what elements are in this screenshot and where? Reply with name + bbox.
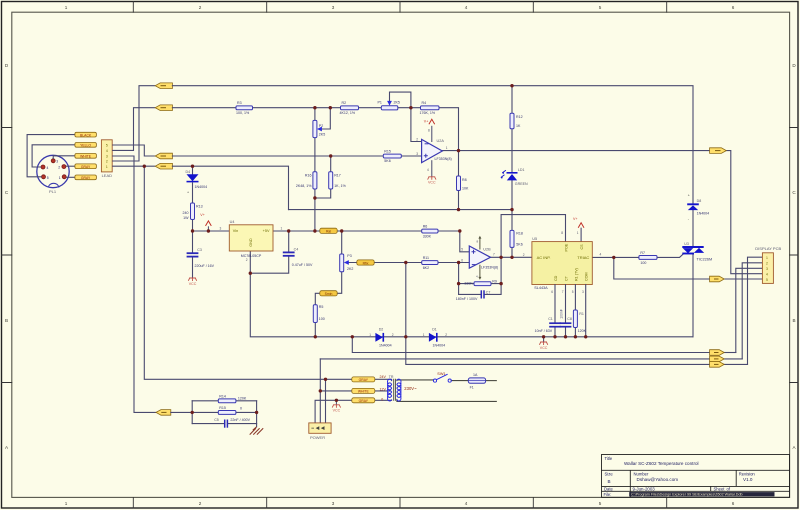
PL1 pin 2 [62, 165, 66, 169]
svg-text:Title: Title [605, 456, 613, 461]
svg-text:R14: R14 [219, 395, 226, 399]
svg-text:SW1: SW1 [437, 372, 445, 376]
net label box WHITE [75, 154, 97, 159]
net label box Smin [320, 291, 337, 296]
junction LEAD pin1 / 24V drop [143, 165, 146, 168]
svg-text:9-Jun-2003: 9-Jun-2003 [633, 487, 656, 492]
svg-text:D8: D8 [697, 199, 702, 203]
svg-text:C:\Program Files\Design Explor: C:\Program Files\Design Explorer 99 SE\E… [631, 493, 743, 497]
wire C3 bottom lead to VCC [192, 258, 194, 278]
svg-text:V1.0: V1.0 [743, 477, 753, 482]
svg-text:Wallar SC-Z602 Temperature con: Wallar SC-Z602 Temperature control [624, 461, 699, 466]
svg-text:2K5: 2K5 [319, 133, 325, 137]
svg-text:R11: R11 [423, 256, 429, 260]
net arrow bus C [710, 362, 725, 368]
svg-text:100: 100 [319, 317, 325, 321]
svg-text:4: 4 [465, 501, 468, 506]
resistor R8 [457, 176, 461, 191]
wire LEAD pin3 down to R14 block [112, 156, 156, 412]
potentiometer P3 [340, 254, 344, 272]
svg-text:C4: C4 [294, 247, 299, 251]
junction R13 / C3 / V+ node [191, 229, 194, 232]
wire gate node down to arrow [614, 257, 710, 279]
wire U5 R1TV pin chain [574, 285, 576, 337]
wire 24V label to transformer [375, 379, 392, 380]
svg-text:3: 3 [766, 267, 768, 271]
PL1 pin 5 [42, 175, 46, 179]
svg-text:6: 6 [732, 501, 735, 506]
svg-text:PL1: PL1 [49, 189, 57, 194]
svg-text:3: 3 [220, 226, 222, 230]
resistor R18 [510, 230, 514, 247]
wire R14 row [192, 400, 256, 402]
svg-text:TIC226M: TIC226M [697, 257, 713, 261]
svg-text:1: 1 [577, 231, 579, 235]
junction common rail / R1TV pin [574, 335, 577, 338]
svg-text:U3: U3 [684, 242, 689, 246]
wire PL1 pin2 to GRAY label [66, 165, 75, 167]
svg-text:R7: R7 [640, 251, 645, 255]
junction +5V / C4 [287, 229, 290, 232]
svg-text:U4: U4 [230, 220, 235, 224]
junction feedback R9 right [499, 282, 502, 285]
wire P1 node down to U2A inverting input [411, 108, 422, 142]
svg-text:D4: D4 [186, 170, 191, 174]
svg-text:C5: C5 [214, 418, 219, 422]
svg-text:R16: R16 [305, 173, 312, 177]
capacitor C7 [480, 290, 482, 298]
svg-text:TRIAC: TRIAC [577, 255, 589, 260]
potentiometer P1 [381, 106, 398, 110]
svg-text:Revision: Revision [739, 472, 756, 477]
svg-text:B: B [5, 318, 8, 323]
junction raw DC row / LED chain [510, 208, 513, 211]
connector DISPLAY PCB [762, 253, 773, 284]
PL1 pin 3 [51, 159, 55, 163]
svg-text:WHITE: WHITE [358, 390, 370, 394]
svg-text:GRAY: GRAY [359, 399, 369, 403]
wire common rail down and right [250, 273, 693, 337]
svg-text:0: 0 [240, 407, 242, 411]
junction GRAY row / D4 [191, 165, 194, 168]
svg-text:4K12, 1%: 4K12, 1% [340, 111, 356, 115]
wire transformer secondary top to SW1 [397, 379, 434, 382]
svg-text:BLACK: BLACK [80, 133, 92, 137]
wire filter left bus [171, 401, 192, 424]
svg-text:GREEN: GREEN [515, 182, 528, 186]
junction 12V row / POWER riser [319, 389, 322, 392]
resistor R1 [573, 310, 577, 328]
svg-text:2: 2 [106, 160, 108, 164]
wire transformer secondary bottom to mains [397, 399, 496, 401]
svg-text:YELLO: YELLO [80, 144, 91, 148]
svg-text:6K2: 6K2 [423, 266, 429, 270]
svg-text:R2: R2 [342, 101, 347, 105]
resistor R2 [341, 106, 359, 110]
triac U3 [682, 246, 703, 248]
net label box GRAY [75, 164, 97, 169]
title block [602, 455, 790, 498]
wire PL1 pin1 to GRAY label [66, 176, 75, 178]
wire bus A riser and row [352, 337, 709, 353]
junction common rail / CD pin [553, 335, 556, 338]
svg-text:D2: D2 [379, 327, 384, 331]
wire U4 GND stub [249, 251, 251, 273]
svg-text:4: 4 [766, 273, 768, 277]
wire U2B output to U5 [491, 256, 532, 258]
power port VCC below C3 [188, 278, 196, 281]
mains filter network wires [171, 401, 257, 427]
net label box BLACK [75, 132, 97, 137]
svg-text:3: 3 [106, 155, 108, 159]
regulator U4 [229, 225, 273, 251]
resistor R14 [218, 399, 236, 403]
wire U4 GND to C4 bottom [250, 256, 288, 273]
svg-text:Date: Date [604, 487, 614, 492]
svg-text:VCC: VCC [189, 282, 197, 286]
svg-text:240: 240 [183, 211, 189, 215]
wire LEAD pin4 up to R3 row [112, 108, 155, 151]
svg-text:C8: C8 [567, 317, 572, 321]
svg-text:2K2: 2K2 [347, 267, 353, 271]
svg-text:1K: 1K [516, 124, 521, 128]
op-amp U2B [469, 246, 490, 268]
diode D4 [187, 174, 199, 181]
svg-text:4: 4 [427, 168, 429, 172]
wire V+ node row to U4 Vin [193, 230, 230, 232]
svg-text:B: B [792, 318, 795, 323]
wire PL1 pin5 to BLACK label [27, 135, 75, 177]
svg-text:6: 6 [461, 258, 463, 262]
net label box Ral [320, 228, 337, 233]
svg-text:0.47uF / 50V: 0.47uF / 50V [292, 263, 313, 267]
svg-text:3: 3 [332, 5, 335, 10]
svg-text:3: 3 [416, 152, 418, 156]
wire raw DC row [289, 209, 513, 211]
wire POWER pin2 riser with bus B elbow [319, 359, 321, 423]
svg-text:GRAY: GRAY [81, 165, 91, 169]
svg-text:2: 2 [523, 253, 525, 257]
wire R13 to V+ node [192, 220, 194, 232]
wire P2 wiper elbow [322, 108, 331, 129]
junction common rail / R5 [314, 335, 317, 338]
svg-text:176K, 1%: 176K, 1% [420, 111, 436, 115]
wire DISPLAY pin1 riser [748, 257, 763, 364]
wire arrow to DISPLAY pin5 [724, 278, 762, 280]
border zone numbers bottom [65, 501, 735, 506]
svg-text:V+: V+ [200, 213, 205, 217]
svg-text:3: 3 [56, 160, 58, 164]
wire P1 wiper bracket [390, 92, 411, 108]
svg-text:2K5: 2K5 [394, 100, 400, 104]
svg-text:CD: CD [554, 275, 558, 281]
svg-text:+: + [688, 194, 690, 198]
svg-text:1: 1 [106, 165, 108, 169]
wire LEAD pin5 elbow to arrow [112, 145, 155, 156]
net label box Rfix [357, 260, 374, 265]
junction common rail / COM pin [584, 335, 587, 338]
net arrow bus A [710, 350, 725, 356]
svg-text:100: 100 [640, 261, 646, 265]
svg-text:C1: C1 [548, 317, 553, 321]
net arrow (top rail) [155, 83, 172, 89]
connector PL1 circle [37, 155, 69, 187]
svg-text:10K: 10K [462, 187, 469, 191]
svg-text:2: 2 [445, 333, 447, 337]
border zone letters left [5, 63, 9, 450]
border zone letters right [792, 63, 796, 450]
svg-text:R15: R15 [384, 149, 391, 153]
svg-text:C3: C3 [197, 248, 202, 252]
svg-text:1N4004: 1N4004 [379, 343, 392, 347]
svg-text:2: 2 [416, 138, 418, 142]
U2B power stubs [479, 237, 481, 278]
resistor R17 [329, 172, 333, 189]
svg-text:POE: POE [565, 243, 569, 251]
svg-text:R1 (TV): R1 (TV) [574, 268, 578, 281]
svg-text:Dshaw@Yahoo.com: Dshaw@Yahoo.com [637, 477, 679, 482]
wire U5 CS stub to V+ [580, 228, 582, 241]
junction TRIAC pin / gate net [612, 256, 615, 259]
svg-text:1N4004: 1N4004 [195, 185, 208, 189]
svg-text:P2: P2 [319, 124, 323, 128]
svg-text:LF353N(8): LF353N(8) [435, 157, 452, 161]
power port V+ at U4 input [207, 226, 209, 231]
svg-text:5: 5 [461, 248, 463, 252]
junction WHITE row / R17 [329, 154, 332, 157]
wire R3 row segments [172, 108, 458, 151]
LEAD pin numbers [106, 144, 108, 169]
svg-text:POWER: POWER [310, 435, 325, 440]
wire 12V label to transformer [375, 390, 390, 392]
svg-text:1: 1 [446, 146, 448, 150]
net label box YELLO [75, 143, 97, 148]
svg-text:V+: V+ [573, 217, 578, 221]
svg-text:4: 4 [600, 253, 602, 257]
junction common rail / VCC stub [542, 335, 545, 338]
PL1 pin 1 [62, 175, 66, 179]
svg-text:22nF / 400V: 22nF / 400V [230, 418, 250, 422]
wire bus C arrow tip to display pin1 riser [724, 363, 747, 365]
transformer TR primary winding [388, 379, 392, 401]
svg-text:220uF / 16V: 220uF / 16V [195, 264, 215, 268]
svg-text:R9: R9 [492, 279, 497, 283]
wire U5 COM pin [585, 285, 587, 337]
svg-text:U5: U5 [532, 237, 537, 241]
svg-text:7: 7 [562, 290, 564, 294]
svg-text:24V: 24V [380, 375, 387, 379]
U5 bottom pin numbers [551, 290, 584, 294]
wire top rail [172, 86, 693, 204]
junction U2B output / POE riser [499, 256, 502, 259]
svg-text:12V: 12V [380, 387, 387, 391]
phase control U5 [532, 242, 592, 285]
U2A VCC power stub [431, 160, 433, 176]
svg-text:File:: File: [604, 492, 612, 497]
diode D1 [429, 333, 437, 342]
junction +5V / R16 R17 node [313, 229, 316, 232]
svg-text:F1: F1 [470, 386, 474, 390]
svg-text:LEAD: LEAD [102, 173, 113, 178]
svg-text:5: 5 [47, 176, 49, 180]
resistor R6 [422, 229, 438, 233]
net arrow bus B [710, 356, 725, 362]
resistor R15a [218, 411, 236, 415]
net arrow (bottom, mains filter row) [156, 410, 171, 416]
wire WHITE row to R15 and U2A plus input [172, 155, 421, 157]
svg-text:LF353N(8): LF353N(8) [481, 265, 498, 269]
LED LD1 [507, 172, 518, 174]
wire R12 LED chain stubs [511, 86, 513, 210]
junction wiper row / bus C riser [404, 261, 407, 264]
wire bus B row [320, 358, 709, 360]
svg-text:Sheet: Sheet [714, 487, 726, 492]
net label box GRAY (0V) [352, 398, 375, 403]
wire D4 cathode to R13 [192, 183, 194, 203]
wire PL1 pin4 to YELLO label [32, 145, 75, 167]
wire D8 anode stub [692, 210, 694, 246]
junction common rail / bus A riser [351, 335, 354, 338]
svg-text:V+: V+ [424, 119, 429, 123]
svg-text:330K: 330K [423, 234, 432, 238]
svg-text:GND: GND [249, 238, 253, 247]
svg-text:1: 1 [423, 333, 425, 337]
svg-text:1A: 1A [473, 373, 478, 377]
wire POWER pin3 riser from 24V row [325, 379, 327, 423]
svg-text:1W: 1W [183, 216, 189, 220]
svg-text:MC78L05CP: MC78L05CP [241, 254, 262, 258]
svg-text:B: B [608, 479, 611, 484]
wire R8 stubs [458, 151, 460, 210]
junction R3 row / P2 wiper [329, 106, 332, 109]
svg-text:100, 1%: 100, 1% [236, 111, 250, 115]
resistor R16 [313, 172, 317, 189]
svg-text:4: 4 [47, 166, 49, 170]
wire fuse F1 to mains [486, 380, 497, 382]
net label box WHITE (12V) [352, 388, 375, 393]
net label box GRAY (24V) [352, 377, 375, 382]
svg-text:DISPLAY PCB: DISPLAY PCB [755, 246, 781, 251]
svg-text:CT: CT [565, 275, 569, 281]
svg-text:VCC: VCC [540, 346, 548, 350]
wire 0V label to transformer [375, 399, 392, 401]
wire U5 CD pin chain [554, 285, 556, 337]
wire R5 bottom stub [314, 323, 316, 337]
svg-text:SL443A: SL443A [534, 286, 548, 290]
svg-text:230V~: 230V~ [404, 386, 417, 391]
wire bus B arrow tip to display pin2 riser [724, 358, 742, 360]
title block texts [604, 456, 756, 497]
svg-text:2: 2 [58, 165, 60, 169]
svg-text:R5: R5 [319, 305, 324, 309]
wire DISPLAY pin2 riser [742, 263, 762, 359]
junction R16 / R17 bottoms [313, 196, 316, 199]
wire C4 top lead [288, 231, 290, 252]
wire LEAD pin1 branch down to transformer 24V [144, 166, 351, 379]
svg-text:R17: R17 [334, 173, 341, 177]
svg-text:2: 2 [199, 5, 202, 10]
wire P3 bottom elbow to R5 [315, 272, 341, 305]
op-amp U2A [422, 139, 443, 162]
svg-text:1N4004: 1N4004 [697, 212, 710, 216]
svg-text:180nF / 100V: 180nF / 100V [456, 297, 478, 301]
wire GRAY row (D4 feed) [172, 166, 288, 209]
svg-text:0: 0 [381, 398, 383, 402]
wire R16 R17 bottoms join [315, 189, 331, 231]
resistor R3 [236, 106, 253, 110]
svg-text:WHITE: WHITE [80, 155, 92, 159]
resistor R9 feedback [474, 282, 491, 286]
wire +5V branch down to P3 top [341, 231, 343, 254]
svg-text:VCC: VCC [428, 181, 436, 185]
net arrow (U2A output to display) [710, 148, 727, 154]
border column ticks top [133, 2, 666, 13]
wire P3 wiper row to U2B minus input [346, 262, 469, 264]
net label box GRAY [75, 175, 97, 180]
svg-text:5: 5 [599, 5, 602, 10]
svg-text:R15: R15 [219, 406, 226, 410]
wire LEAD pin1 to arrow [112, 165, 155, 167]
wire DISPLAY pin3 riser [736, 268, 763, 352]
svg-text:LD1: LD1 [518, 168, 525, 172]
svg-text:+: + [187, 191, 189, 195]
svg-text:Vin: Vin [233, 229, 238, 233]
svg-text:R18: R18 [516, 231, 523, 235]
connector POWER [309, 423, 331, 433]
svg-text:120K: 120K [578, 329, 587, 333]
border zone numbers top [65, 5, 735, 10]
earth ground [250, 427, 264, 435]
diode D2 [375, 333, 383, 342]
wire 0V row [315, 400, 352, 423]
capacitor C4 [283, 251, 295, 253]
wire R7 to triac gate [657, 254, 683, 257]
wire D4 anode stub [192, 166, 194, 174]
U2A V+ power stub [431, 126, 433, 142]
svg-text:U2A: U2A [437, 139, 445, 143]
svg-text:5: 5 [599, 501, 602, 506]
title block file path highlighted [629, 492, 774, 496]
svg-text:2K48, 1%: 2K48, 1% [296, 184, 312, 188]
transformer core [394, 379, 396, 401]
fuse F1 [468, 378, 485, 383]
svg-text:R6: R6 [423, 224, 428, 228]
svg-text:P3: P3 [347, 254, 351, 258]
wire R11 node riser down to diode mid node and bus C [406, 263, 710, 365]
capacitor C5 [224, 420, 226, 428]
svg-text:Smin: Smin [325, 292, 333, 296]
diode D8 [687, 203, 699, 205]
border row ticks right [790, 128, 798, 383]
resistor R4 [421, 106, 440, 110]
wire POE link [501, 215, 565, 258]
wire U5 CT pin chain [565, 285, 567, 337]
junction +5V / U2B noninverting riser [458, 229, 461, 232]
resistor R11 [422, 261, 438, 265]
wire +5V row [273, 230, 460, 232]
svg-text:120K: 120K [238, 397, 247, 401]
border row ticks left [2, 128, 12, 383]
wire C3 top lead [192, 231, 194, 252]
connector PL1 key notch [48, 183, 58, 187]
svg-text:R4: R4 [422, 101, 427, 105]
junction +5V / P3 top [340, 229, 343, 232]
svg-text:3: 3 [332, 501, 335, 506]
svg-text:1: 1 [59, 176, 61, 180]
svg-text:4: 4 [465, 5, 468, 10]
power port VCC on common rail [539, 342, 547, 345]
svg-text:3: 3 [582, 290, 584, 294]
